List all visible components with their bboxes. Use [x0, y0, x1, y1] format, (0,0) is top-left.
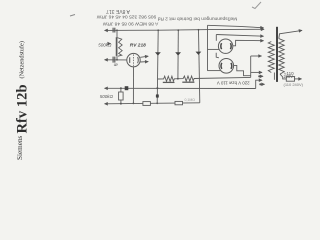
svg-text:0,1MΩ: 0,1MΩ — [185, 98, 196, 102]
svg-text:905 982 325 04 45 46 JRW: 905 982 325 04 45 46 JRW — [96, 14, 156, 20]
svg-text:RV 218: RV 218 — [130, 43, 146, 49]
svg-text:(Netzendstufe): (Netzendstufe) — [19, 41, 26, 78]
svg-text:Meßspannungen bei Betrieb mit: Meßspannungen bei Betrieb mit 2 Rd — [157, 15, 237, 21]
svg-text:A 88 MEW 90 85 48 JRW: A 88 MEW 90 85 48 JRW — [102, 21, 158, 27]
svg-text:A 8VE 317: A 8VE 317 — [106, 8, 130, 14]
svg-text:Rfv 12b: Rfv 12b — [15, 84, 31, 133]
svg-text:(110 240V): (110 240V) — [284, 82, 304, 87]
svg-text:220V~: 220V~ — [284, 74, 297, 79]
svg-text:œ: œ — [114, 62, 118, 67]
svg-text:Siemens: Siemens — [16, 135, 24, 160]
svg-text:500kΩ: 500kΩ — [98, 42, 112, 47]
svg-text:500kΩ: 500kΩ — [100, 94, 114, 99]
svg-text:220 V bzw 110 V: 220 V bzw 110 V — [217, 80, 250, 85]
